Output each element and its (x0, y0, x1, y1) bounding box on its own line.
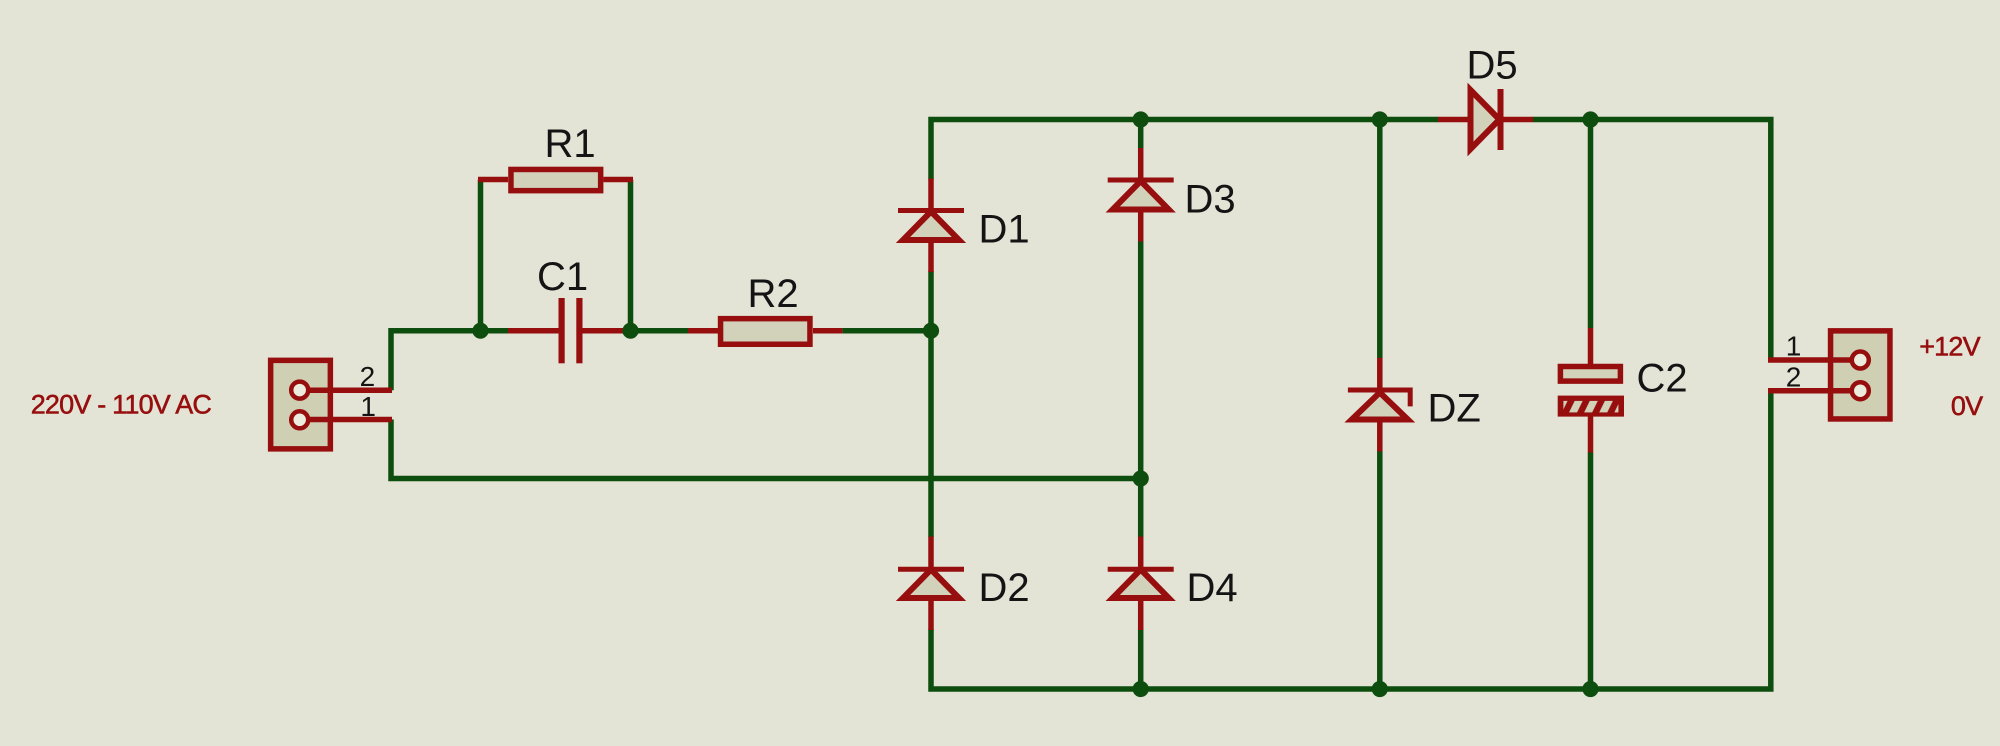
diode D5 (1438, 89, 1533, 150)
wire: D4 anode to bottom rail (1138, 629, 1144, 689)
wire: node B to R2 left pin (631, 328, 689, 334)
wire: top rail after D5 to output riser (1533, 120, 1771, 361)
svg-text:+12V: +12V (1919, 331, 1980, 361)
wire: R2 right pin to node C (842, 328, 931, 334)
junction top rail / C2 (1582, 111, 1598, 127)
wire: D3 cathode to top rail (1138, 120, 1144, 149)
diode D3 (1108, 148, 1174, 242)
svg-text:DZ: DZ (1428, 387, 1481, 431)
wire: node A to C1 left pin (481, 328, 510, 334)
pin lead J1 pin 1 (300, 417, 392, 423)
junction top rail / D3 (1133, 111, 1149, 127)
capacitor C2 (electrolytic) (1558, 328, 1624, 453)
pin ring J2 pin 2 (1852, 382, 1869, 399)
svg-text:R2: R2 (748, 272, 799, 316)
pin ring J2 pin 1 (1852, 352, 1869, 369)
junction middle rail / D3-D4 (1133, 470, 1149, 486)
pin ring J1 pin 2 (291, 382, 308, 399)
wire: C2 bottom to bottom rail (1588, 452, 1594, 689)
connector J2 output body (1831, 331, 1890, 419)
junction top rail / DZ (1372, 111, 1388, 127)
resistor R1 (478, 169, 633, 190)
svg-text:2: 2 (360, 361, 376, 392)
svg-text:C2: C2 (1637, 357, 1688, 401)
pin ring J1 pin 1 (291, 411, 308, 428)
resistor R2 (688, 319, 842, 345)
wire: D3 anode to middle rail to D4 cathode (1138, 241, 1144, 538)
junction bottom rail / DZ (1372, 681, 1388, 697)
zener diode DZ (1348, 358, 1410, 452)
svg-text:R1: R1 (545, 122, 596, 166)
wire: DZ anode to bottom rail (1377, 451, 1383, 689)
svg-text:D3: D3 (1185, 178, 1236, 222)
wire: top rail (931, 120, 1439, 180)
svg-text:1: 1 (1786, 330, 1802, 361)
junction node C (923, 323, 939, 339)
svg-text:D2: D2 (979, 566, 1030, 610)
svg-text:D1: D1 (979, 208, 1030, 252)
connector J1 input body (271, 360, 331, 449)
pin lead J2 pin 2 (1768, 388, 1861, 394)
junction bottom rail / C2 (1582, 681, 1598, 697)
svg-text:2: 2 (1786, 361, 1802, 392)
svg-text:D4: D4 (1187, 566, 1238, 610)
junction node B (622, 323, 638, 339)
pin lead J1 pin 2 (300, 388, 392, 394)
pin lead J2 pin 1 (1768, 357, 1861, 363)
wire: R1 right leg (628, 180, 634, 331)
wire: R1 left leg (478, 180, 484, 331)
diode D1 (898, 179, 964, 273)
wire: DZ cathode riser (1377, 120, 1383, 359)
wire: input pin1 riser to middle rail (391, 420, 1141, 479)
diode D2 (898, 537, 964, 631)
diode D4 (1108, 537, 1174, 631)
wire: D1 anode to node C to D2 cathode (928, 271, 934, 537)
svg-text:0V: 0V (1951, 391, 1983, 421)
wire: bottom rail to output pin2 riser (931, 391, 1771, 689)
capacitor C1 (508, 298, 631, 363)
junction bottom rail / D4 (1133, 681, 1149, 697)
junction node A (472, 323, 488, 339)
svg-text:D5: D5 (1467, 44, 1518, 88)
svg-text:1: 1 (360, 391, 376, 422)
svg-text:C1: C1 (537, 255, 588, 299)
wire: C2 top riser (1588, 120, 1594, 329)
svg-text:220V - 110V AC: 220V - 110V AC (31, 390, 212, 420)
wire: input pin2 riser to node A (391, 331, 481, 391)
